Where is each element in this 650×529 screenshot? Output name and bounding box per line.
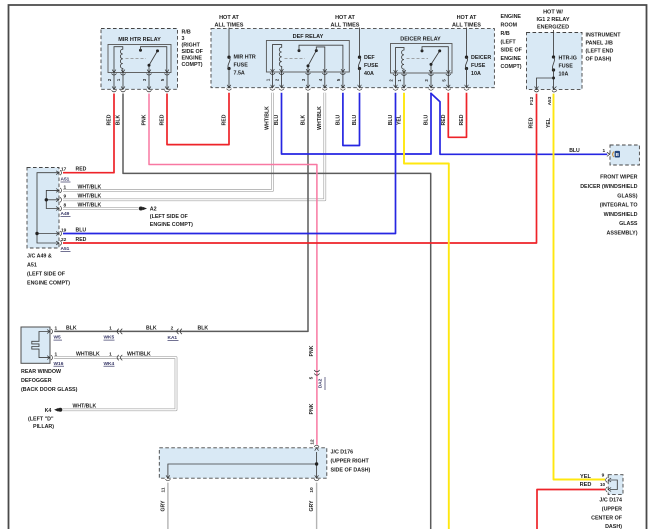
svg-text:J/C D174: J/C D174 (599, 498, 622, 504)
J/C D174 pin 10 connector (606, 487, 612, 492)
wire WHT/BLK from DEF RELAY pin 1 to J/C A49 pin 1 (63, 93, 273, 191)
wire BLU from DEF RELAY pin 2 to DEICER RELAY pin 3 (282, 93, 432, 154)
svg-text:BLK: BLK (146, 325, 157, 331)
relay MIR HTR RELAY pin leads (114, 73, 167, 90)
svg-text:ENERGIZED: ENERGIZED (537, 25, 569, 31)
junction inside INSTRUMENT PANEL J/B (552, 77, 555, 80)
label K4 (LEFT D PILLAR) (28, 408, 54, 430)
svg-text:R/B: R/B (182, 30, 191, 36)
svg-text:HOT AT: HOT AT (457, 15, 477, 21)
svg-text:12: 12 (309, 439, 315, 445)
svg-text:DASH): DASH) (605, 524, 622, 529)
svg-text:17: 17 (61, 167, 67, 173)
J/C A49 pin 9 connector (56, 197, 62, 202)
fuse DEICER FUSE 10A (466, 28, 468, 58)
svg-text:PANEL J/B: PANEL J/B (586, 41, 614, 47)
ENGINE ROOM R/B bottom pin connectors (227, 85, 470, 91)
FRONT WIPER DEICER pin 1 arrow (607, 152, 610, 156)
svg-text:PNK: PNK (142, 114, 148, 125)
svg-text:A2: A2 (150, 207, 157, 213)
svg-text:YEL: YEL (397, 115, 403, 125)
svg-text:DEICER (WINDSHIELD: DEICER (WINDSHIELD (580, 184, 637, 190)
inline connector WK5 (117, 329, 122, 334)
power label HOT AT ALL TIMES (left) (215, 15, 244, 29)
relay MIR HTR RELAY pin connectors at relay box (112, 70, 170, 76)
svg-text:F12: F12 (529, 97, 535, 106)
svg-text:2: 2 (171, 325, 174, 331)
J/C A49 & A51 internal bus pins 17-19-22 (37, 173, 59, 243)
relay DEF RELAY fixed contact to pin 5 (298, 49, 301, 52)
relay DEICER RELAY fixed contact to pin 5 (421, 49, 424, 52)
svg-text:RED: RED (160, 114, 166, 125)
relay MIR HTR RELAY actuator dashed link (126, 58, 147, 60)
fuse HTR-IG FUSE 10A (553, 30, 555, 57)
svg-text:YEL: YEL (580, 474, 591, 480)
label REAR WINDOW DEFOGGER (BACK DOOR GLASS) (21, 369, 78, 393)
svg-text:HOT W/: HOT W/ (543, 10, 563, 16)
relay DEF RELAY pin leads (273, 72, 343, 88)
svg-text:10: 10 (600, 482, 606, 488)
R/B 3 bottom pin connectors (112, 86, 170, 92)
svg-text:ENGINE: ENGINE (501, 14, 522, 20)
svg-text:BLU: BLU (424, 114, 430, 125)
svg-text:(BACK DOOR GLASS): (BACK DOOR GLASS) (21, 387, 78, 393)
J/C A51 pin 19 connector (56, 231, 62, 236)
svg-text:(UPPER RIGHT: (UPPER RIGHT (331, 459, 370, 465)
ground point K4 (58, 408, 62, 412)
svg-text:22: 22 (61, 237, 67, 243)
FRONT WIPER DEICER terminal cup (613, 152, 614, 157)
svg-text:FUSE: FUSE (559, 64, 574, 70)
J/C A49 internal bus pins 1-9-8 (46, 190, 59, 208)
svg-text:(LEFT SIDE OF: (LEFT SIDE OF (150, 214, 189, 220)
inline connector WK4 (117, 355, 122, 360)
svg-text:SIDE OF: SIDE OF (501, 48, 523, 54)
svg-text:RED: RED (580, 482, 592, 488)
relay DEICER RELAY box (391, 44, 453, 74)
svg-text:BLU: BLU (352, 114, 358, 125)
relay DEF RELAY coil (273, 45, 282, 72)
svg-text:(LEFT "D": (LEFT "D" (28, 416, 54, 422)
wire WHT/BLK from J/C A49 pin 8 to ground A2 (63, 207, 139, 210)
svg-text:40A: 40A (364, 71, 374, 77)
svg-text:HOT AT: HOT AT (335, 15, 355, 21)
svg-text:COMPT): COMPT) (501, 64, 522, 70)
relay DEICER RELAY pin connectors at relay box (393, 70, 451, 76)
relay DEF RELAY actuator dashed link (285, 57, 306, 59)
wire BLK from DEF RELAY pin 3 to REAR WINDOW DEFOGGER pin 1 (54, 93, 308, 332)
relay DEICER RELAY actuator dashed link (407, 58, 429, 60)
svg-text:(RIGHT: (RIGHT (182, 43, 201, 49)
svg-text:11: 11 (160, 487, 166, 492)
connector badge B (615, 151, 620, 158)
svg-text:A51: A51 (27, 263, 37, 269)
svg-text:FUSE: FUSE (364, 63, 379, 69)
svg-text:RED: RED (529, 117, 535, 128)
J/C D176 pin 10 connector (314, 475, 319, 481)
svg-text:BLU: BLU (274, 114, 280, 125)
label INSTRUMENT PANEL J/B (LEFT END OF DASH) (586, 33, 622, 63)
label ENGINE ROOM R/B (LEFT SIDE OF ENGINE COMPT) (501, 14, 523, 70)
label J/C D174 (UPPER CENTER OF DASH) (591, 498, 623, 529)
label A2 (LEFT SIDE OF ENGINE COMPT) (150, 207, 193, 228)
relay DEICER RELAY switch arm (431, 51, 440, 73)
svg-text:3: 3 (182, 36, 185, 42)
relay block R/B 3 (dashed box) (101, 29, 178, 90)
wire PNK from MIR HTR RELAY pin 3 to J/C D176 pin 12 (149, 94, 317, 445)
label R/B 3 (RIGHT SIDE OF ENGINE COMPT) (182, 30, 204, 69)
power label HOT W/ IG1 2 RELAY ENERGIZED (536, 10, 569, 31)
svg-text:ENGINE COMPT): ENGINE COMPT) (150, 222, 193, 228)
wire BLU from DEF RELAY pin 5 to DEF FUSE (343, 93, 360, 146)
svg-text:WHT/BLK: WHT/BLK (78, 194, 102, 200)
relay DEF RELAY box (266, 41, 349, 73)
svg-text:COMPT): COMPT) (182, 62, 203, 68)
fuse DEF FUSE 40A (359, 28, 361, 58)
J/C D176 pin 12 connector (314, 445, 319, 451)
J/C A49 pin 1 connector (56, 188, 62, 193)
fuse MIR HTR FUSE 7.5A (228, 28, 230, 58)
svg-text:1: 1 (109, 325, 112, 331)
svg-text:WHT/BLK: WHT/BLK (78, 184, 102, 190)
J/C D174 pin 9 connector (606, 478, 612, 483)
svg-text:CENTER OF: CENTER OF (591, 516, 623, 522)
svg-text:DEF RELAY: DEF RELAY (293, 34, 324, 40)
svg-text:GLASS): GLASS) (617, 193, 637, 199)
svg-text:GRY: GRY (160, 500, 166, 512)
ground point A2 (139, 207, 143, 211)
wire GRY from J/C D176 pin 11 to page bottom (167, 483, 169, 529)
svg-text:10A: 10A (471, 71, 481, 77)
svg-text:DA2: DA2 (318, 378, 324, 388)
svg-text:A53: A53 (547, 96, 553, 105)
wire BLU from DEICER RELAY pin 3 to FRONT WIPER DEICER pin 1 (431, 93, 607, 155)
svg-text:WINDSHIELD: WINDSHIELD (604, 212, 638, 218)
svg-text:R/B: R/B (501, 31, 510, 37)
label MIR HTR FUSE 7.5A (234, 55, 256, 77)
svg-text:FUSE: FUSE (471, 63, 486, 69)
svg-text:PNK: PNK (309, 403, 315, 414)
svg-text:ENGINE: ENGINE (182, 56, 203, 62)
J/C D176 internal bus (168, 452, 317, 478)
svg-text:MIR HTR: MIR HTR (234, 55, 256, 61)
svg-text:BLK: BLK (198, 325, 209, 331)
svg-text:ENGINE COMPT): ENGINE COMPT) (27, 281, 70, 287)
svg-text:ROOM: ROOM (501, 23, 518, 29)
svg-text:ENGINE: ENGINE (501, 56, 522, 62)
wire BLU from DEICER RELAY pin 2 to J/C A51 pin 19 (63, 93, 396, 234)
svg-text:RED: RED (459, 114, 465, 125)
INSTRUMENT PANEL J/B bottom pin connectors (534, 87, 539, 93)
svg-text:FRONT WIPER: FRONT WIPER (600, 175, 638, 181)
wire RED from INSTRUMENT PANEL J/B pin F12 to J/C A51 pin 22 (63, 94, 537, 243)
svg-text:BLU: BLU (335, 114, 341, 125)
svg-text:1: 1 (109, 352, 112, 358)
wire YEL from INSTRUMENT PANEL J/B pin A53 to J/C D174 pin 9 (554, 94, 606, 480)
svg-text:BLK: BLK (116, 114, 122, 125)
svg-text:MIR HTR RELAY: MIR HTR RELAY (118, 37, 161, 43)
svg-text:SIDE OF: SIDE OF (182, 49, 204, 55)
svg-text:5: 5 (309, 376, 315, 379)
J/C D176 pin 11 connector (165, 475, 170, 481)
REAR WINDOW DEFOGGER heater element (32, 332, 50, 358)
svg-text:BLK: BLK (66, 325, 77, 331)
svg-text:7.5A: 7.5A (234, 71, 245, 77)
relay DEF RELAY pin connectors at relay box (270, 69, 345, 75)
svg-text:(LEFT: (LEFT (501, 40, 517, 46)
svg-text:1: 1 (55, 325, 58, 331)
relay DEICER RELAY pin numbers 2 1 3 5 (389, 79, 447, 82)
svg-text:DEICER RELAY: DEICER RELAY (400, 37, 441, 43)
relay DEICER RELAY pin leads (396, 73, 449, 88)
relay MIR HTR RELAY box (108, 45, 171, 73)
svg-text:RED: RED (107, 114, 113, 125)
svg-text:(LEFT SIDE OF: (LEFT SIDE OF (27, 272, 66, 278)
wire GRY from J/C D176 pin 10 to page bottom (316, 483, 318, 529)
svg-text:HOT AT: HOT AT (219, 15, 239, 21)
wire RED from MIR HTR RELAY pin 2 to J/C A51 pin 17 (63, 94, 114, 173)
REAR WINDOW DEFOGGER pin 1 connector (47, 329, 53, 334)
svg-text:10: 10 (309, 487, 315, 493)
svg-text:(UPPER: (UPPER (602, 507, 622, 513)
svg-text:RED: RED (76, 167, 87, 173)
J/C D174 internal bus (610, 480, 617, 490)
svg-text:19: 19 (61, 227, 67, 233)
label DEICER FUSE 10A (471, 55, 491, 77)
svg-text:HTR-IG: HTR-IG (559, 56, 577, 62)
svg-text:(INTEGRAL TO: (INTEGRAL TO (600, 203, 638, 209)
wire RED from page bottom to J/C D174 pin 10 (537, 490, 605, 529)
svg-text:K4: K4 (45, 408, 52, 414)
svg-text:GLASS: GLASS (619, 221, 638, 227)
relay block ENGINE ROOM R/B (dashed box) (211, 29, 494, 88)
junction connector J/C D174 (dashed box) (608, 475, 623, 495)
svg-text:IG1 2 RELAY: IG1 2 RELAY (536, 17, 569, 23)
component FRONT WIPER DEICER connector (dashed box) (610, 145, 639, 165)
junction block INSTRUMENT PANEL J/B (dashed box) (527, 33, 583, 90)
svg-text:BLK: BLK (301, 114, 307, 125)
inline connector DA2 (314, 370, 319, 375)
svg-text:9: 9 (64, 194, 67, 200)
svg-text:1: 1 (64, 184, 67, 190)
svg-text:BLU: BLU (76, 227, 87, 233)
svg-text:SIDE OF DASH): SIDE OF DASH) (331, 468, 371, 474)
wire WHT/BLK from DEF RELAY pin 4 to J/C A49 pin 9 (63, 93, 325, 200)
svg-text:OF DASH): OF DASH) (586, 57, 612, 63)
svg-text:J/C D176: J/C D176 (331, 450, 354, 456)
power label HOT AT ALL TIMES (right) (452, 15, 481, 29)
svg-text:DEF: DEF (364, 55, 375, 61)
relay DEF RELAY switch arm (308, 51, 316, 72)
svg-text:J/C A49 &: J/C A49 & (27, 254, 52, 260)
svg-text:WHT/BLK: WHT/BLK (73, 403, 97, 409)
svg-text:(LEFT END: (LEFT END (586, 49, 614, 55)
relay DEF RELAY contact to pin 4 (316, 47, 325, 72)
inline connector KA1 (177, 329, 182, 334)
component REAR WINDOW DEFOGGER box (21, 327, 50, 363)
svg-text:RED: RED (76, 237, 87, 243)
svg-text:BLU: BLU (569, 148, 580, 154)
relay MIR HTR RELAY coil (114, 47, 123, 73)
relay MIR HTR RELAY switch arm (149, 51, 158, 73)
svg-text:RED: RED (222, 114, 228, 125)
relay DEICER RELAY coil (396, 48, 405, 73)
svg-text:DEICER: DEICER (471, 55, 491, 61)
junction connector J/C D176 (dashed box) (159, 448, 326, 478)
label DEF FUSE 40A (364, 55, 379, 77)
svg-text:PNK: PNK (309, 345, 315, 356)
svg-text:WHT/BLK: WHT/BLK (127, 352, 151, 358)
svg-text:YEL: YEL (546, 118, 552, 128)
svg-text:WHT/BLK: WHT/BLK (265, 106, 271, 130)
svg-text:1: 1 (602, 148, 605, 154)
J/C A51 pin 22 connector (56, 241, 62, 246)
wire RED from MIR HTR RELAY pin 5 to MIR HTR FUSE (167, 93, 229, 145)
svg-text:PILLAR): PILLAR) (33, 424, 54, 430)
wire RED from DEICER RELAY pin 5 to DEICER FUSE (448, 93, 466, 138)
label J/C D176 (UPPER RIGHT SIDE OF DASH) (331, 450, 371, 474)
svg-text:10A: 10A (559, 72, 569, 78)
svg-text:RED: RED (441, 114, 447, 125)
relay DEF RELAY pin numbers 1 2 3 4 5 (266, 78, 341, 81)
J/C A51 pin 17 connector (56, 170, 62, 175)
svg-text:ALL TIMES: ALL TIMES (331, 23, 360, 29)
wire WHT/BLK from REAR WINDOW DEFOGGER pin 2 to ground K4 (54, 358, 176, 410)
svg-text:REAR WINDOW: REAR WINDOW (21, 369, 62, 375)
svg-text:9: 9 (602, 472, 605, 478)
svg-text:ASSEMBLY): ASSEMBLY) (607, 231, 638, 237)
junction connector J/C A49 & A51 (dashed box) (27, 168, 59, 249)
svg-text:GRY: GRY (309, 500, 315, 512)
label HTR-IG FUSE 10A (559, 56, 577, 78)
svg-text:BLU: BLU (388, 114, 394, 125)
wire YEL from DEICER RELAY pin 1 to page bottom (404, 93, 449, 529)
REAR WINDOW DEFOGGER pin 2 connector (47, 355, 53, 360)
power label HOT AT ALL TIMES (center) (331, 15, 360, 29)
svg-text:INSTRUMENT: INSTRUMENT (586, 33, 622, 39)
svg-text:FUSE: FUSE (234, 63, 249, 69)
label FRONT WIPER DEICER (WINDSHIELD GLASS) (580, 175, 638, 237)
relay MIR HTR RELAY pin numbers 2 1 3 5 (107, 78, 165, 81)
svg-text:WHT/BLK: WHT/BLK (317, 106, 323, 130)
J/C A49 pin 8 connector (56, 206, 62, 211)
wire BLK from MIR HTR RELAY pin 1 to page bottom (123, 94, 431, 529)
relay MIR HTR RELAY fixed contact (139, 49, 142, 52)
svg-text:DEFOGGER: DEFOGGER (21, 378, 52, 384)
label J/C A49 & A51 (LEFT SIDE OF ENGINE COMPT) (27, 254, 70, 287)
